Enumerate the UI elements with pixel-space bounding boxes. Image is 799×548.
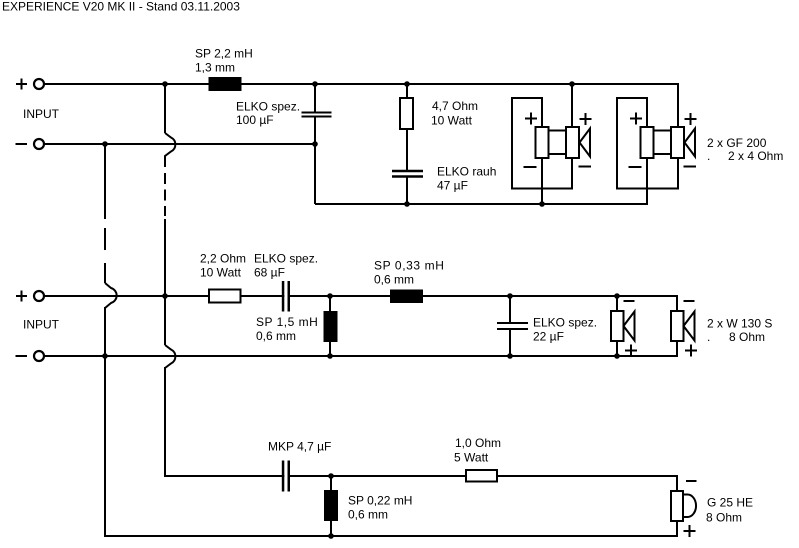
wire: mid + rail: [44, 296, 677, 311]
junction top+ / link: [162, 81, 168, 87]
svg-text:SP 1,5 mH: SP 1,5 mH: [256, 315, 318, 329]
junction top+ / 100uF: [312, 81, 318, 87]
polarity - left: [629, 166, 642, 168]
svg-text:INPUT: INPUT: [23, 107, 60, 121]
wire: 4,7 Ohm branch: [406, 84, 408, 204]
svg-text:.: .: [707, 149, 710, 163]
polarity + left: [630, 113, 642, 125]
inductor SP 1,5 mH: [324, 311, 338, 342]
voice coil right: [671, 127, 684, 158]
polarity -: [684, 300, 695, 302]
wire: top section bottom rail: [315, 158, 647, 204]
terminal - (mid input): [16, 351, 45, 361]
polarity - right: [579, 166, 592, 168]
wire: to - rail: [616, 341, 618, 356]
wire hop over top - wire: [165, 133, 175, 167]
junction mid+ / SP1,5: [327, 293, 333, 299]
resistor 2,2 Ohm: [209, 290, 241, 303]
svg-text:ELKO spez.: ELKO spez.: [533, 316, 597, 330]
dome: [683, 495, 696, 518]
voice coil left: [641, 127, 654, 158]
wire: feed from + rail: [616, 296, 618, 311]
wire: link solid down to mid + rail: [164, 219, 166, 345]
svg-text:22 µF: 22 µF: [533, 330, 564, 344]
wire: series loop: [512, 98, 572, 189]
svg-text:1,3 mm: 1,3 mm: [195, 61, 235, 75]
capacitor MKP 4,7 uF: [282, 461, 290, 492]
svg-text:SP 0,33 mH: SP 0,33 mH: [374, 259, 444, 273]
junction top+ / 4,7 Ohm: [404, 81, 410, 87]
resistor 4,7 Ohm: [400, 98, 413, 129]
speaker W130S #2: [671, 301, 697, 357]
voice coil: [671, 491, 683, 521]
svg-text:68 µF: 68 µF: [254, 266, 285, 280]
wire: top + rail from input to GF200 #2 feed: [44, 84, 678, 127]
wire: top - wire from input to cap node: [44, 143, 315, 145]
wire: - link to bottom rail, bottom rail to tweeter: [105, 307, 677, 536]
inductor SP 2,2 mH: [209, 77, 242, 91]
svg-text:47 µF: 47 µF: [437, 179, 468, 193]
junction mid- / down link: [102, 353, 108, 359]
resistor 1,0 Ohm: [466, 470, 497, 482]
polarity + left: [525, 113, 537, 125]
polarity +: [625, 345, 637, 357]
cone: [685, 129, 696, 157]
svg-text:SP 0,22 mH: SP 0,22 mH: [348, 494, 412, 508]
speaker W130S #1: [611, 296, 637, 357]
wire: left coil to bottom rail: [646, 158, 648, 204]
svg-text:2 x W 130 S: 2 x W 130 S: [707, 317, 772, 331]
voice coil: [671, 311, 684, 341]
wire: SP 0,22 mH shunt branch: [330, 476, 332, 536]
wire: feed from + rail to voice coil: [571, 84, 573, 127]
wire: link top+ to mid+ (upper solid): [164, 84, 166, 133]
svg-text:INPUT: INPUT: [23, 318, 60, 332]
polarity +: [684, 525, 696, 537]
junction tweeter+ / SP0,22: [328, 473, 334, 479]
wire: ELKO 100uF branch: [314, 84, 316, 204]
svg-text:.: .: [707, 330, 710, 344]
polarity -: [624, 300, 635, 302]
junction mid+ / link: [162, 293, 168, 299]
voice coil: [611, 311, 624, 341]
wire: ELKO 22uF shunt branch: [509, 296, 511, 356]
svg-text:2,2 Ohm: 2,2 Ohm: [200, 252, 246, 266]
svg-text:0,6 mm: 0,6 mm: [348, 508, 388, 522]
speaker GF200 #2: [617, 98, 697, 204]
polarity - right: [684, 166, 697, 168]
junction mid+ / W130S #1: [614, 293, 620, 299]
wire: link down to tweeter feed, tweeter + wire: [165, 367, 677, 491]
voice coil left: [536, 127, 549, 158]
junction mid- / 22uF: [507, 353, 513, 359]
terminal - (top input): [16, 139, 45, 149]
svg-text:8 Ohm: 8 Ohm: [706, 511, 742, 525]
svg-text:EXPERIENCE V20 MK II - Stand 0: EXPERIENCE V20 MK II - Stand 03.11.2003: [2, 0, 240, 14]
polarity +: [685, 345, 697, 357]
svg-text:1,0 Ohm: 1,0 Ohm: [455, 436, 501, 450]
junction mid+ / 22uF: [507, 293, 513, 299]
junction top- / 100uF: [312, 141, 318, 147]
svg-text:2 x GF 200: 2 x GF 200: [707, 136, 767, 150]
wire: mid - rail: [44, 341, 677, 356]
capacitor ELKO spez. 68uF: [282, 281, 290, 312]
polarity + right: [685, 113, 697, 125]
junction bottom rail / SP0,22: [328, 533, 334, 539]
svg-text:G 25 HE: G 25 HE: [707, 496, 753, 510]
junction mid- / SP1,5: [327, 353, 333, 359]
magnet bar: [549, 131, 567, 155]
voice coil right: [566, 127, 579, 158]
svg-text:0,6 mm: 0,6 mm: [256, 329, 296, 343]
svg-text:MKP 4,7 µF: MKP 4,7 µF: [268, 440, 331, 454]
junction rail / 47uF: [404, 201, 410, 207]
wire: top - down-link (solid): [104, 144, 106, 219]
capacitor ELKO spez. 22uF: [497, 323, 528, 329]
terminal + (mid input): [16, 291, 44, 302]
wire: dashed link segment: [164, 173, 166, 216]
svg-text:ELKO rauh: ELKO rauh: [437, 165, 496, 179]
svg-text:100 µF: 100 µF: [236, 113, 274, 127]
svg-text:SP 2,2 mH: SP 2,2 mH: [195, 47, 253, 61]
svg-text:10 Watt: 10 Watt: [200, 266, 242, 280]
polarity + right: [580, 113, 592, 125]
svg-text:0,6 mm: 0,6 mm: [374, 273, 414, 287]
svg-text:5 Watt: 5 Watt: [454, 451, 489, 465]
junction top+ / GF200 #1 feed: [569, 81, 575, 87]
wire hop over mid + rail: [105, 283, 117, 308]
capacitor ELKO rauh 47uF: [392, 171, 423, 177]
junction rail / GF200 #1: [539, 201, 545, 207]
polarity - left: [524, 166, 537, 168]
inductor SP 0,33 mH: [390, 290, 423, 304]
wire: left coil to bottom rail: [541, 158, 543, 204]
polarity -: [686, 480, 697, 482]
inductor SP 0,22 mH: [324, 490, 338, 521]
wire: series loop: [617, 98, 678, 189]
junction top- / down link: [102, 141, 108, 147]
speaker GF200 #1: [512, 84, 592, 204]
wire hop over mid - rail: [165, 345, 175, 368]
junction mid- / W130S #1: [614, 353, 620, 359]
svg-text:ELKO spez.: ELKO spez.: [236, 100, 300, 114]
tweeter G 25 HE: [671, 481, 697, 537]
svg-text:ELKO spez.: ELKO spez.: [254, 252, 318, 266]
cone: [580, 129, 591, 157]
capacitor ELKO spez. 100uF: [302, 113, 332, 117]
svg-text:10 Watt: 10 Watt: [431, 114, 473, 128]
svg-text:4,7 Ohm: 4,7 Ohm: [432, 99, 478, 113]
wire: dashed - link segment: [104, 228, 106, 283]
svg-text:2 x 4 Ohm: 2 x 4 Ohm: [728, 149, 783, 163]
cone: [684, 312, 695, 341]
terminal + (top input): [16, 79, 44, 90]
wire: SP 1,5 mH shunt branch: [329, 296, 331, 356]
svg-text:8 Ohm: 8 Ohm: [729, 330, 765, 344]
cone: [624, 312, 635, 341]
magnet bar: [654, 131, 672, 155]
